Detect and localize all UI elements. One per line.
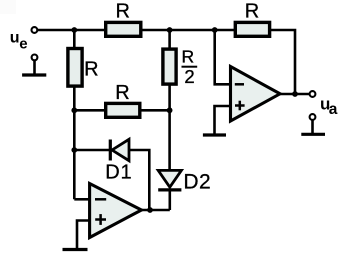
svg-text:R: R: [115, 1, 129, 23]
svg-text:R: R: [245, 1, 259, 23]
svg-text:u: u: [10, 30, 20, 47]
svg-text:D1: D1: [105, 161, 132, 183]
svg-text:R: R: [115, 82, 129, 104]
svg-text:R: R: [84, 59, 98, 81]
svg-text:2: 2: [184, 66, 194, 87]
svg-text:e: e: [19, 35, 27, 52]
svg-text:D2: D2: [183, 170, 211, 193]
svg-text:a: a: [329, 101, 338, 118]
svg-text:R: R: [181, 46, 194, 66]
